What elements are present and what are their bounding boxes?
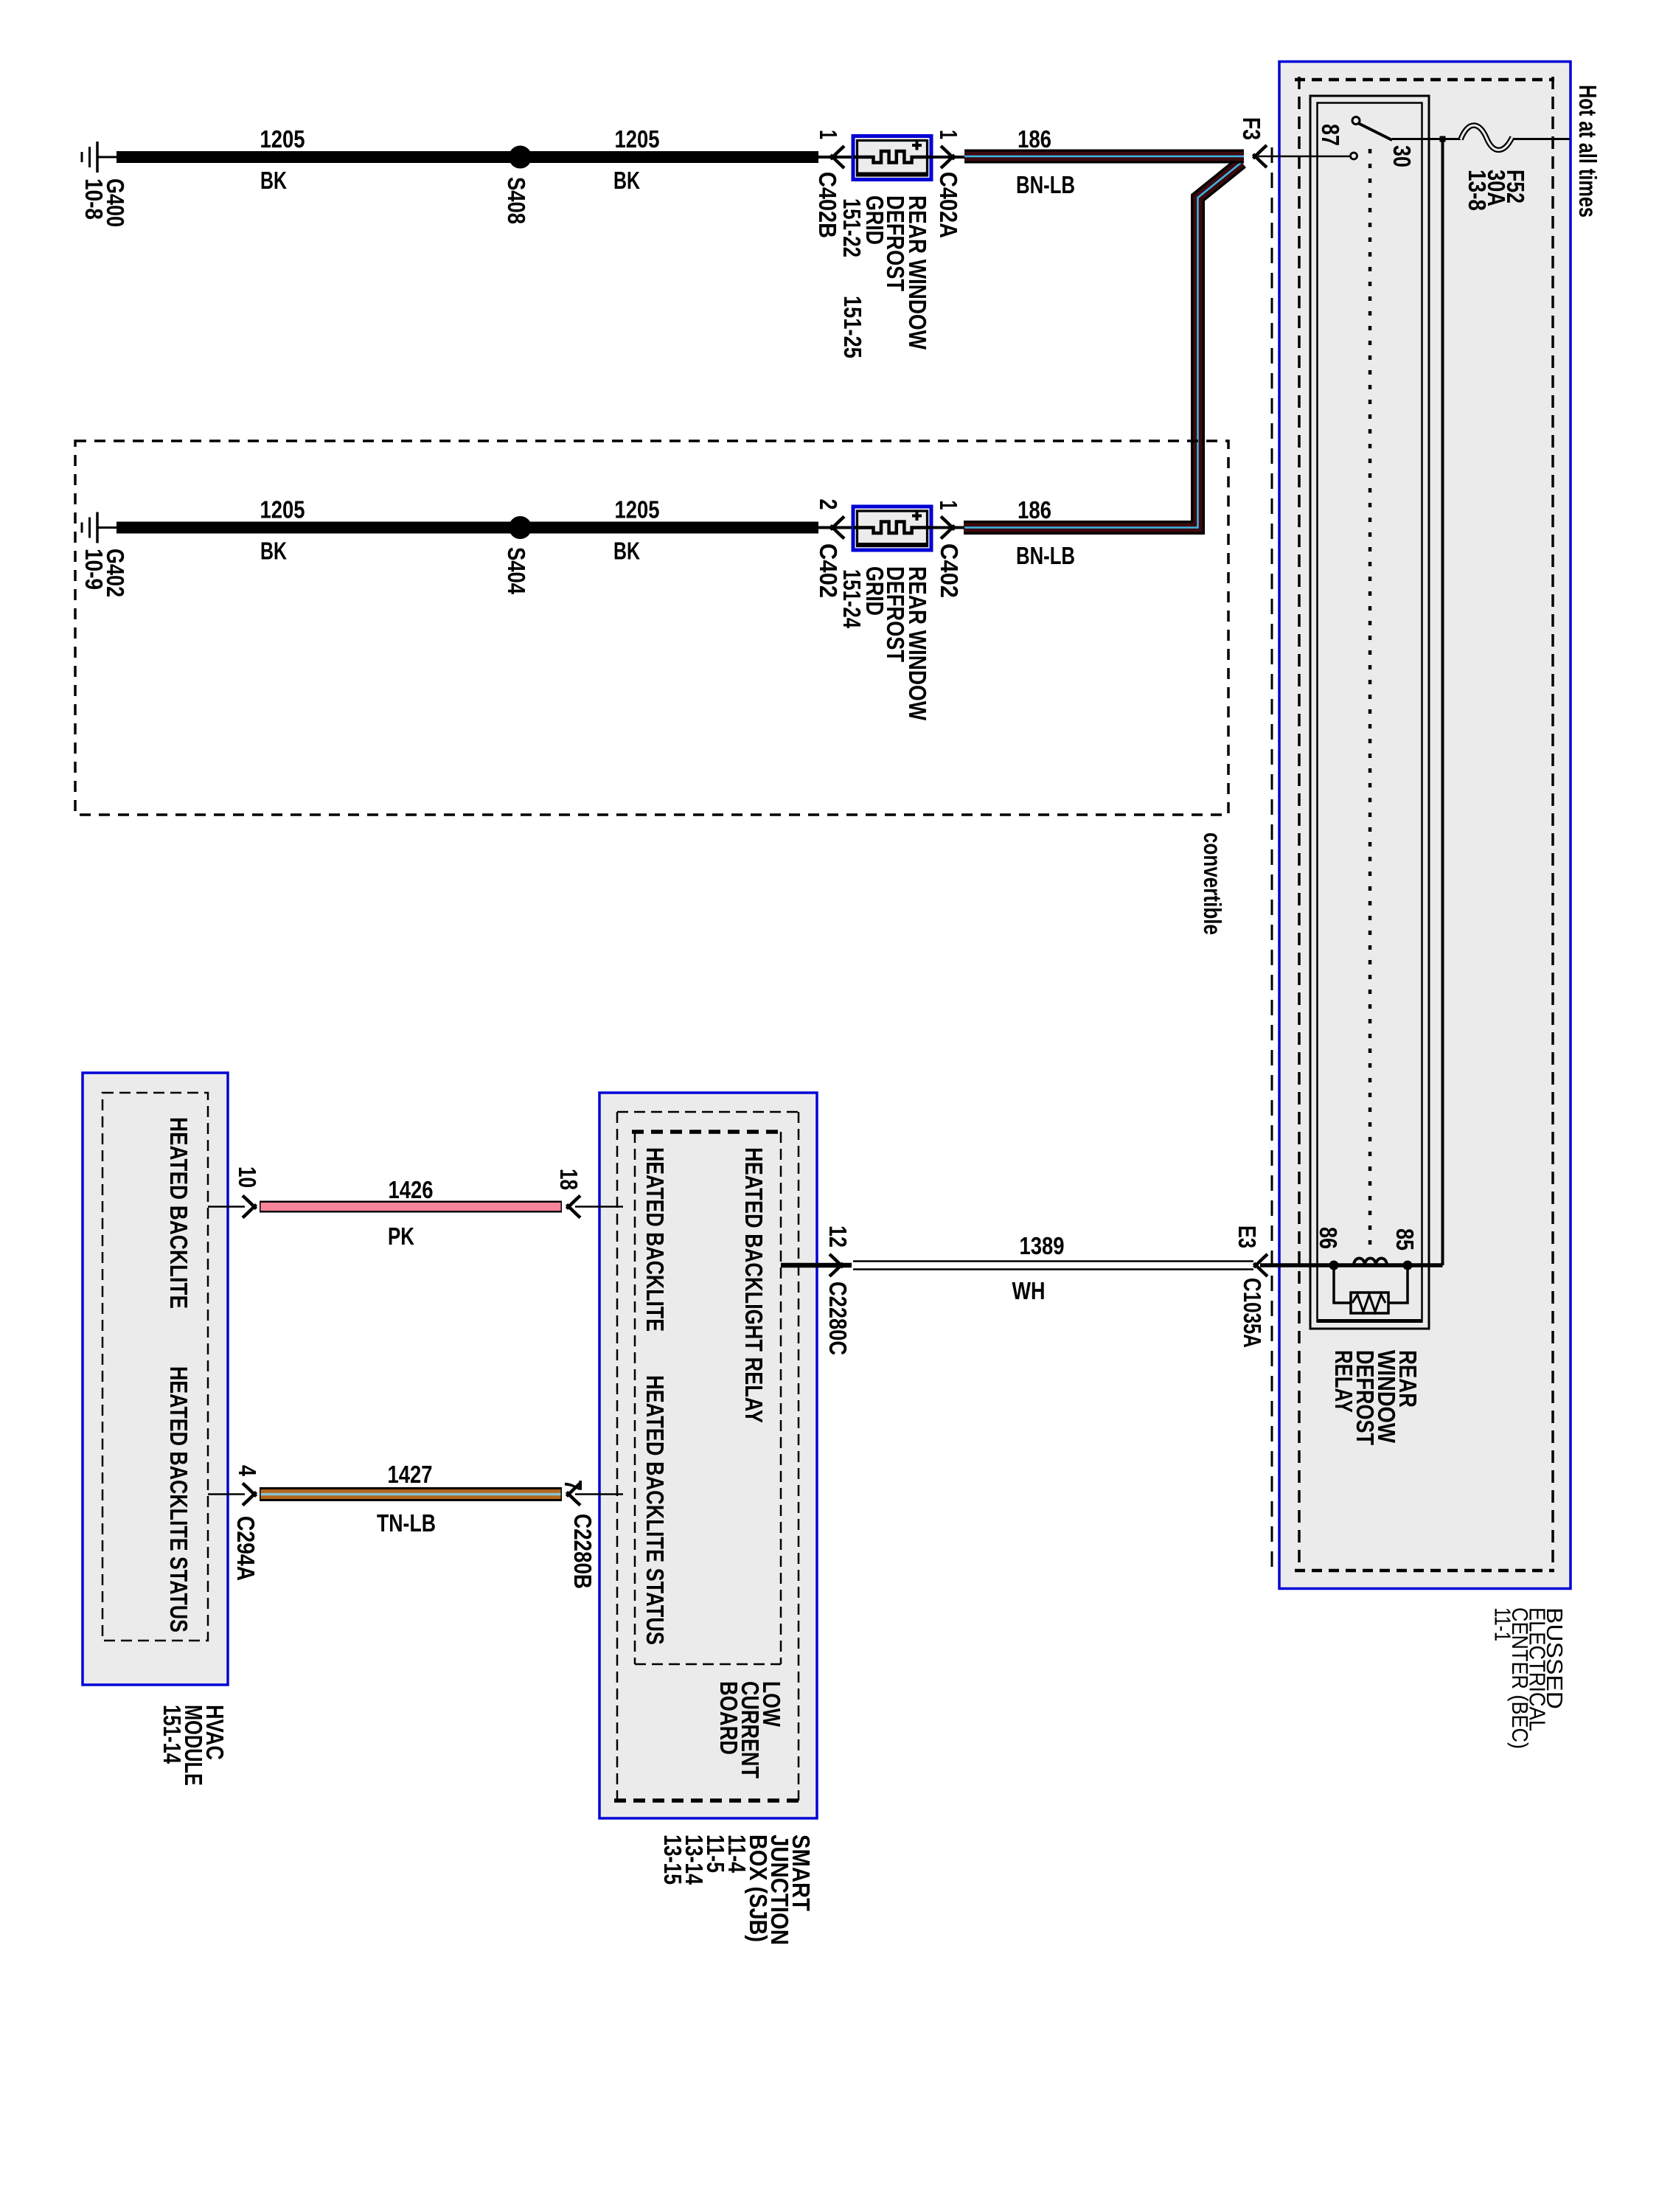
- svg-text:13-8: 13-8: [1464, 170, 1491, 211]
- svg-text:RELAY: RELAY: [1330, 1350, 1357, 1413]
- svg-text:10-9: 10-9: [80, 549, 108, 590]
- SJB pin 18 stub: [575, 1206, 623, 1208]
- svg-text:C294A: C294A: [232, 1516, 260, 1581]
- resistor zigzag: [1352, 1295, 1385, 1312]
- svg-text:Hot at all times: Hot at all times: [1574, 85, 1601, 218]
- connector pin 12 arrow C2280C: [829, 1254, 844, 1267]
- connector E3 arrow C1035A: [1254, 1254, 1268, 1267]
- wire 186 BN-LB circuit1: [964, 150, 1244, 164]
- svg-text:C402B: C402B: [814, 172, 841, 238]
- svg-text:BK: BK: [613, 167, 640, 194]
- relay coil wire: [1260, 1263, 1443, 1267]
- svg-text:86: 86: [1315, 1227, 1342, 1249]
- SJB pin 7 stub: [575, 1493, 623, 1495]
- connector pin 4 arrow C294A: [243, 1484, 257, 1497]
- HVAC pin 10 stub: [208, 1206, 245, 1208]
- svg-text:186: 186: [1018, 125, 1051, 153]
- svg-text:11-1: 11-1: [1490, 1607, 1516, 1641]
- svg-text:10: 10: [234, 1166, 261, 1188]
- relay contact 87 terminal: [1352, 117, 1360, 125]
- svg-text:BK: BK: [260, 167, 287, 194]
- relay switch arm: [1358, 123, 1392, 140]
- svg-text:1426: 1426: [389, 1176, 434, 1203]
- rear window defrost grid component 2: [853, 507, 931, 550]
- wire 186 BN-LB circuit2 riser: [964, 162, 1242, 528]
- svg-text:85: 85: [1391, 1228, 1419, 1251]
- wire pin30/85 vertical: [1441, 139, 1444, 1266]
- svg-text:HEATED BACKLITE STATUS: HEATED BACKLITE STATUS: [641, 1375, 669, 1645]
- connector C1035A dashed line: [1271, 147, 1273, 1569]
- svg-text:E3: E3: [1234, 1225, 1261, 1248]
- svg-text:HEATED BACKLITE: HEATED BACKLITE: [165, 1117, 192, 1309]
- wire stub to C402B: [818, 156, 853, 159]
- wire stub from C402A: [931, 156, 964, 159]
- svg-text:1205: 1205: [260, 496, 305, 524]
- junction pin30: [1440, 136, 1446, 142]
- ground G402: [97, 526, 117, 529]
- svg-text:PK: PK: [388, 1222, 414, 1250]
- svg-text:18: 18: [555, 1169, 582, 1190]
- HVAC inner dashed border: [102, 1093, 208, 1641]
- svg-text:4: 4: [234, 1465, 261, 1477]
- svg-text:C2280C: C2280C: [824, 1281, 852, 1355]
- relay coil: [1354, 1259, 1387, 1266]
- wire pin30 to fuse: [1392, 138, 1461, 140]
- svg-text:151-24: 151-24: [838, 569, 866, 628]
- svg-text:BN-LB: BN-LB: [1016, 171, 1075, 198]
- svg-text:BN-LB: BN-LB: [1016, 542, 1075, 569]
- fuse F52 symbol: [1461, 125, 1512, 150]
- rear window defrost grid component 1: [853, 136, 931, 180]
- svg-text:WH: WH: [1012, 1277, 1046, 1304]
- ground G400: [97, 156, 117, 159]
- connector pin 18 arrow: [567, 1196, 581, 1209]
- svg-text:HEATED BACKLIGHT RELAY: HEATED BACKLIGHT RELAY: [740, 1147, 768, 1423]
- HVAC pin 4 stub: [208, 1493, 245, 1495]
- svg-text:C402: C402: [815, 543, 842, 598]
- svg-text:7: 7: [560, 1480, 587, 1491]
- wire 1205 BK segment b: [526, 151, 818, 163]
- wire fuse to Hot at all times: [1514, 138, 1570, 140]
- connector C402A arrow pin 1: [941, 146, 955, 159]
- svg-text:1389: 1389: [1020, 1232, 1065, 1259]
- svg-text:87: 87: [1317, 124, 1344, 146]
- relay inner box: [1318, 103, 1422, 1322]
- svg-text:1427: 1427: [388, 1461, 433, 1488]
- wire 1427 TN-LB: [260, 1487, 562, 1501]
- svg-text:186: 186: [1018, 496, 1051, 524]
- resistor box: [1351, 1293, 1388, 1313]
- svg-text:2: 2: [815, 499, 842, 510]
- svg-text:30: 30: [1388, 145, 1416, 167]
- svg-text:HEATED BACKLITE: HEATED BACKLITE: [641, 1147, 669, 1332]
- svg-text:1205: 1205: [615, 125, 660, 153]
- SJB outer dashed border: [617, 1111, 799, 1113]
- svg-text:HEATED BACKLITE STATUS: HEATED BACKLITE STATUS: [165, 1366, 192, 1632]
- convertible dashed box: [75, 441, 1228, 815]
- connector F3 arrow: [1253, 145, 1267, 159]
- junction node 85: [1403, 1261, 1413, 1270]
- relay linkage dotted line: [1368, 149, 1372, 1255]
- connector C402B arrow pin 1: [831, 146, 845, 159]
- wire 1426 PK: [260, 1201, 562, 1213]
- wire 1205 BK segment a2: [116, 522, 514, 534]
- svg-text:1: 1: [935, 130, 962, 139]
- junction node 86: [1329, 1261, 1339, 1270]
- resistor branch wires: [1334, 1267, 1351, 1303]
- splice S404: [509, 516, 532, 539]
- wire 1205 BK segment a: [116, 151, 514, 163]
- svg-text:151-22: 151-22: [838, 198, 866, 257]
- connector C402 arrow pin 2: [831, 517, 845, 530]
- HVAC module box: [83, 1073, 228, 1685]
- connector pin 10 arrow: [243, 1196, 257, 1209]
- svg-text:1205: 1205: [615, 496, 660, 524]
- wire 1205 BK segment b2: [526, 522, 818, 534]
- svg-text:C1035A: C1035A: [1239, 1278, 1266, 1348]
- svg-text:BK: BK: [613, 538, 640, 565]
- svg-text:10-8: 10-8: [80, 178, 108, 220]
- BEC box BUSSED ELECTRICAL CENTER: [1279, 62, 1571, 1589]
- svg-text:C2280B: C2280B: [569, 1514, 597, 1589]
- svg-text:BK: BK: [260, 538, 287, 565]
- BEC inner dashed border: [1295, 78, 1554, 82]
- wire 1389 WH double line: [853, 1260, 1253, 1262]
- svg-text:151-25: 151-25: [839, 296, 866, 358]
- svg-text:convertible: convertible: [1199, 832, 1226, 935]
- relay output terminal: [1351, 153, 1357, 159]
- svg-text:F3: F3: [1238, 117, 1265, 140]
- svg-text:13-15: 13-15: [659, 1834, 686, 1885]
- splice S408: [509, 146, 532, 169]
- svg-text:1205: 1205: [260, 125, 305, 153]
- wire stub to C402 pin2: [818, 526, 853, 529]
- svg-text:151-14: 151-14: [159, 1705, 186, 1764]
- SJB inner dashed sub-box: [632, 1130, 781, 1134]
- connector pin 7 arrow C2280B: [567, 1484, 581, 1497]
- svg-text:S404: S404: [503, 547, 530, 595]
- svg-text:C402A: C402A: [935, 172, 962, 238]
- SJB smart junction box: [599, 1093, 817, 1818]
- SJB pin 12 stub: [781, 1263, 852, 1268]
- svg-text:12: 12: [824, 1225, 852, 1248]
- svg-text:BOARD: BOARD: [715, 1681, 742, 1755]
- connector C402 arrow pin 1 right: [941, 517, 955, 530]
- wire stub from C402 pin1: [931, 526, 964, 529]
- relay outer box: [1310, 96, 1429, 1329]
- svg-text:1: 1: [935, 501, 962, 510]
- svg-text:1: 1: [815, 130, 842, 139]
- svg-text:TN-LB: TN-LB: [377, 1509, 436, 1537]
- svg-text:C402: C402: [936, 543, 963, 598]
- svg-text:S408: S408: [503, 177, 530, 224]
